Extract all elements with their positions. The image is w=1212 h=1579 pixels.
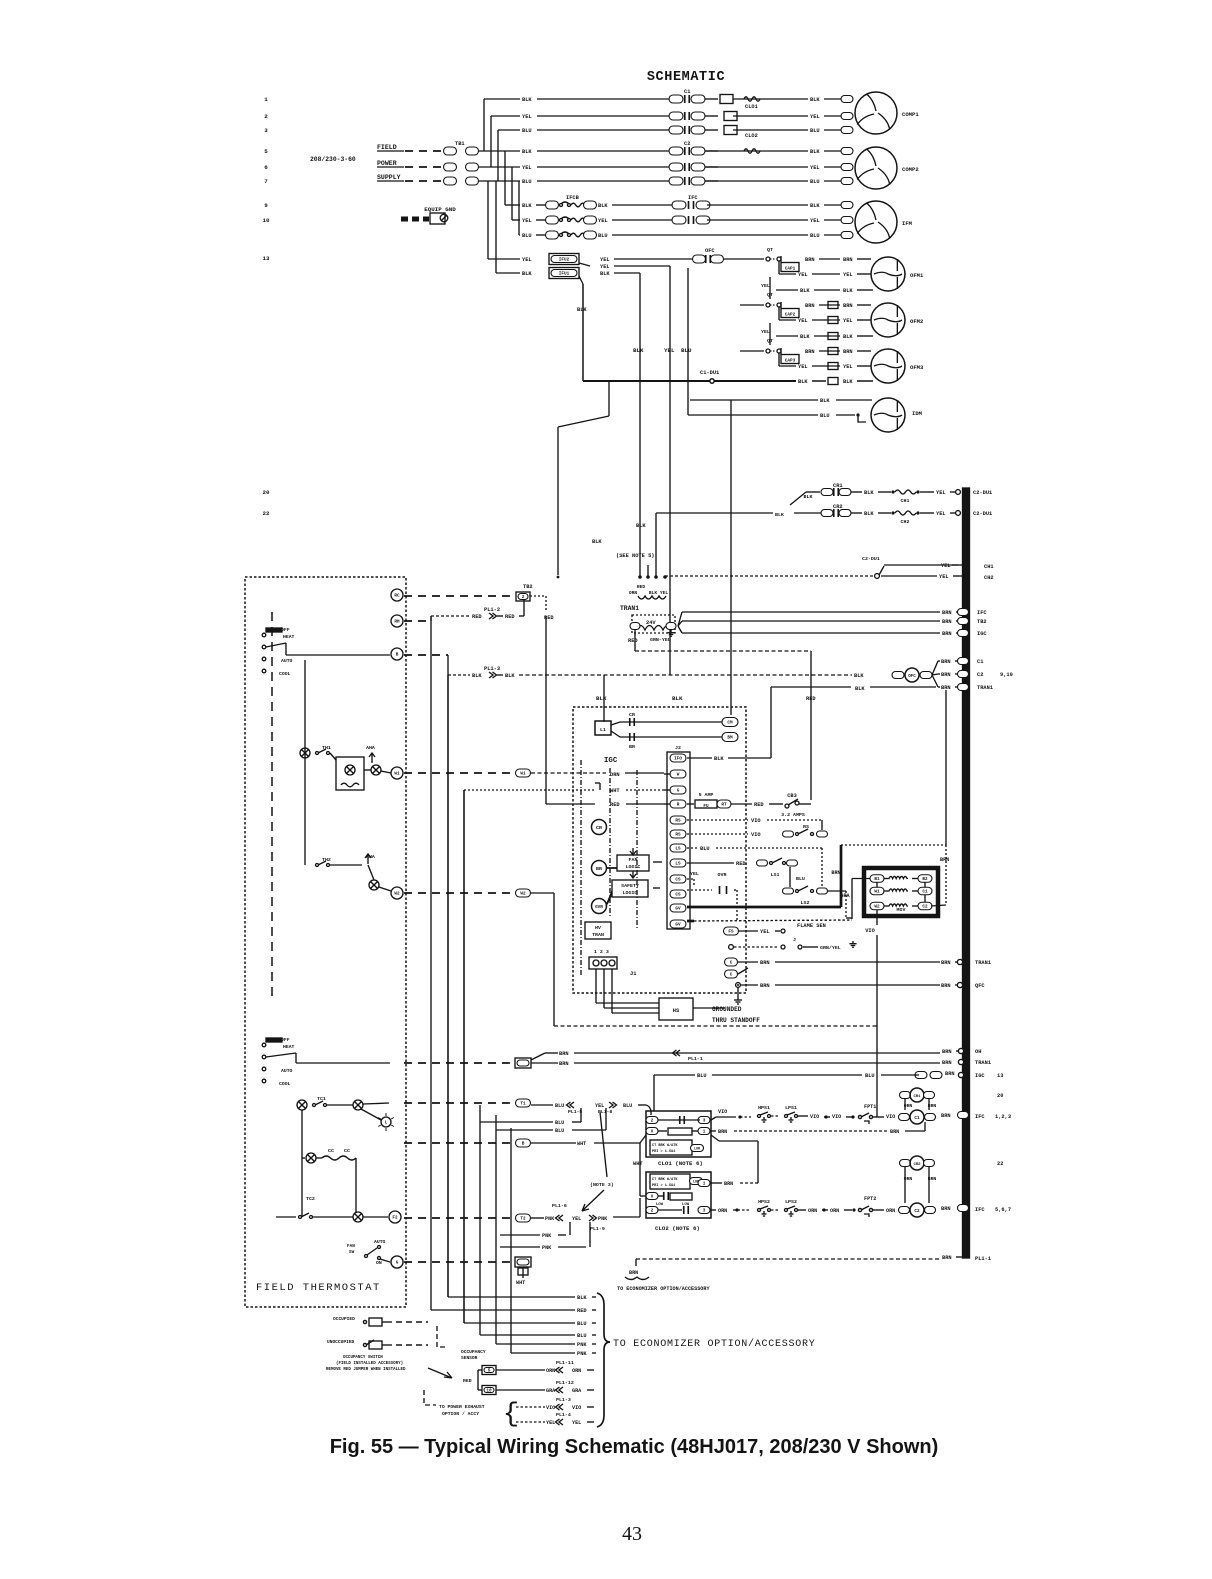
svg-text:BRN: BRN: [843, 257, 853, 263]
svg-text:FU: FU: [703, 804, 709, 809]
svg-text:PL1-3: PL1-3: [556, 1397, 571, 1403]
svg-text:RS: RS: [803, 824, 809, 830]
svg-text:YEL: YEL: [810, 218, 820, 224]
svg-text:ORN: ORN: [610, 772, 620, 778]
svg-text:PNK: PNK: [545, 1216, 555, 1222]
svg-text:SW: SW: [349, 1250, 355, 1255]
svg-text:C2-DU1: C2-DU1: [862, 556, 880, 562]
svg-text:B2: B2: [922, 877, 928, 882]
svg-text:LS2: LS2: [801, 900, 810, 906]
svg-text:RED: RED: [577, 1308, 587, 1314]
svg-text:WHT: WHT: [633, 1161, 643, 1167]
svg-text:REMOVE RED JUMPER WHEN INSTALL: REMOVE RED JUMPER WHEN INSTALLED: [326, 1368, 406, 1372]
svg-text:PL1-5: PL1-5: [568, 1109, 582, 1115]
svg-text:IFC: IFC: [688, 195, 698, 201]
svg-text:1 2 3: 1 2 3: [594, 949, 609, 955]
svg-text:YEL: YEL: [936, 490, 946, 496]
svg-text:BR: BR: [596, 866, 602, 872]
svg-text:YEL: YEL: [595, 1103, 604, 1109]
svg-text:BLU: BLU: [577, 1333, 587, 1339]
svg-text:CLO1: CLO1: [745, 104, 758, 110]
svg-text:YEL: YEL: [798, 364, 808, 370]
svg-text:BLK: BLK: [522, 271, 532, 277]
svg-text:BLK: BLK: [592, 539, 602, 545]
svg-text:W1: W1: [520, 772, 526, 777]
svg-text:BRN: BRN: [629, 1270, 638, 1276]
svg-text:HV: HV: [595, 925, 601, 931]
svg-text:BRN: BRN: [805, 303, 815, 309]
svg-text:SAFETY: SAFETY: [621, 883, 639, 889]
svg-text:PL1-1: PL1-1: [975, 1256, 991, 1262]
svg-text:BRN: BRN: [718, 1129, 727, 1135]
svg-text:BRN: BRN: [941, 1113, 951, 1119]
svg-text:PNK: PNK: [542, 1233, 552, 1239]
svg-text:X: X: [651, 1195, 654, 1200]
svg-text:BLK: BLK: [596, 695, 607, 702]
svg-text:BRN: BRN: [942, 1060, 952, 1066]
svg-text:IFU1: IFU1: [559, 272, 570, 277]
svg-text:TC2: TC2: [306, 1196, 315, 1202]
svg-text:OFM1: OFM1: [910, 272, 924, 279]
svg-text:YEL: YEL: [941, 563, 951, 569]
svg-text:GROUNDED: GROUNDED: [712, 1006, 742, 1013]
svg-text:HEAT: HEAT: [283, 1044, 295, 1050]
svg-text:CH1: CH1: [901, 498, 910, 504]
svg-text:LPS1: LPS1: [785, 1105, 797, 1111]
svg-text:BLK: BLK: [855, 686, 865, 692]
svg-text:10: 10: [486, 1389, 492, 1394]
svg-text:FS: FS: [728, 930, 734, 935]
svg-text:BLU: BLU: [555, 1128, 564, 1134]
svg-text:BRN: BRN: [942, 610, 952, 616]
svg-text:BLK: BLK: [672, 695, 683, 702]
svg-text:CR1: CR1: [913, 1095, 921, 1099]
svg-text:COOL: COOL: [279, 1081, 291, 1087]
svg-text:BLK: BLK: [864, 490, 874, 496]
svg-text:BLK: BLK: [577, 307, 587, 313]
svg-text:EQUIP GND: EQUIP GND: [424, 206, 456, 213]
svg-text:IFC: IFC: [975, 1114, 985, 1120]
svg-text:YEL: YEL: [810, 165, 820, 171]
svg-text:RED: RED: [505, 614, 515, 620]
svg-text:BLK: BLK: [714, 756, 724, 762]
svg-text:W: W: [677, 773, 680, 778]
svg-text:VIO: VIO: [751, 818, 761, 824]
svg-text:BRN: BRN: [890, 1129, 899, 1135]
svg-text:BR: BR: [629, 744, 635, 750]
svg-text:ORN: ORN: [629, 590, 637, 596]
svg-text:OFM3: OFM3: [910, 364, 924, 371]
svg-text:PL1-8: PL1-8: [598, 1109, 612, 1115]
svg-text:LOR: LOR: [694, 1148, 700, 1152]
svg-text:YEL: YEL: [546, 1420, 555, 1426]
svg-text:5 AMP: 5 AMP: [699, 792, 714, 798]
svg-text:6: 6: [264, 164, 268, 171]
svg-text:3: 3: [703, 1119, 706, 1124]
svg-text:13: 13: [262, 255, 270, 262]
svg-text:VIO: VIO: [546, 1405, 555, 1411]
svg-text:YEL: YEL: [522, 165, 532, 171]
svg-text:OCCUPANCY SWITCH: OCCUPANCY SWITCH: [343, 1356, 383, 1360]
svg-text:BRN: BRN: [941, 983, 951, 989]
svg-text:YEL: YEL: [939, 574, 949, 580]
svg-text:IGC: IGC: [604, 757, 618, 765]
svg-text:PL1-9: PL1-9: [590, 1226, 605, 1232]
svg-text:G: G: [677, 789, 680, 794]
svg-text:C: C: [730, 973, 733, 978]
svg-text:(SEE NOTE 5): (SEE NOTE 5): [616, 553, 654, 559]
svg-text:BRN: BRN: [843, 349, 853, 355]
svg-text:T1: T1: [520, 1102, 526, 1107]
svg-text:BRN: BRN: [760, 960, 770, 966]
svg-text:FPT2: FPT2: [864, 1196, 876, 1202]
svg-text:BRN: BRN: [942, 1255, 952, 1261]
svg-text:10: 10: [262, 217, 270, 224]
svg-text:YEL: YEL: [843, 272, 853, 278]
svg-text:TRAN1: TRAN1: [977, 685, 993, 691]
svg-text:BLK: BLK: [804, 494, 813, 500]
svg-text:PL1-3: PL1-3: [484, 666, 500, 672]
svg-text:YEL: YEL: [810, 114, 820, 120]
svg-text:BLK: BLK: [843, 334, 853, 340]
svg-text:MGV: MGV: [897, 907, 906, 913]
svg-text:T2: T2: [520, 1217, 526, 1222]
svg-text:BLK: BLK: [577, 1295, 587, 1301]
svg-text:LS: LS: [675, 862, 681, 867]
svg-text:CLO2 (NOTE 6): CLO2 (NOTE 6): [655, 1225, 700, 1232]
svg-text:FPT1: FPT1: [864, 1104, 876, 1110]
svg-text:BLK: BLK: [810, 203, 820, 209]
svg-text:RT: RT: [721, 803, 727, 808]
svg-text:CS: CS: [675, 893, 681, 898]
svg-text:COOL: COOL: [279, 671, 291, 677]
svg-text:BLK: BLK: [522, 97, 532, 103]
svg-text:OFF: OFF: [281, 1037, 290, 1043]
svg-text:PNK: PNK: [598, 1216, 608, 1222]
svg-text:CAP1: CAP1: [785, 267, 796, 272]
svg-text:J1: J1: [630, 971, 636, 977]
svg-text:PL1-1: PL1-1: [688, 1056, 703, 1062]
svg-text:PNK: PNK: [577, 1342, 587, 1348]
svg-text:HPS2: HPS2: [758, 1199, 770, 1205]
svg-text:FIELD THERMOSTAT: FIELD THERMOSTAT: [256, 1282, 381, 1294]
svg-text:RED: RED: [463, 1378, 472, 1384]
svg-text:BLK: BLK: [864, 511, 874, 517]
svg-text:VIO: VIO: [810, 1114, 819, 1120]
svg-text:C1: C1: [977, 659, 983, 665]
svg-text:CH2: CH2: [984, 575, 994, 581]
svg-text:YEL: YEL: [664, 347, 675, 354]
svg-text:VIO: VIO: [718, 1109, 727, 1115]
svg-text:SENSOR: SENSOR: [461, 1355, 478, 1361]
svg-text:9: 9: [264, 202, 268, 209]
svg-text:2: 2: [651, 1209, 654, 1214]
svg-text:7: 7: [264, 178, 268, 185]
svg-text:BRN: BRN: [942, 619, 952, 625]
svg-text:PL1-2: PL1-2: [484, 607, 500, 613]
svg-text:BRN: BRN: [942, 1049, 952, 1055]
svg-text:YEL: YEL: [572, 1216, 581, 1222]
svg-text:ORN: ORN: [546, 1368, 555, 1374]
svg-text:IFCB: IFCB: [566, 195, 580, 201]
svg-text:2: 2: [522, 595, 525, 600]
svg-text:FIELD: FIELD: [377, 144, 397, 151]
svg-text:GV: GV: [675, 907, 681, 912]
svg-text:IDM: IDM: [912, 410, 923, 417]
svg-text:L1: L1: [600, 727, 606, 733]
svg-text:GVR: GVR: [595, 905, 603, 910]
svg-text:BRN: BRN: [940, 857, 949, 863]
svg-text:(NOTE 3): (NOTE 3): [590, 1182, 614, 1188]
svg-text:BRN: BRN: [941, 960, 951, 966]
svg-text:BLK: BLK: [854, 673, 864, 679]
svg-text:C2-DU1: C2-DU1: [973, 490, 992, 496]
svg-text:QT: QT: [767, 247, 773, 253]
svg-text:BLU: BLU: [810, 128, 820, 134]
svg-text:OFM2: OFM2: [910, 318, 923, 325]
svg-text:2: 2: [264, 113, 268, 120]
svg-text:CAP2: CAP2: [785, 313, 796, 318]
svg-text:TB2: TB2: [977, 619, 987, 625]
svg-text:QT: QT: [767, 292, 773, 298]
svg-text:HEAT: HEAT: [283, 634, 295, 640]
svg-text:BRN: BRN: [805, 349, 815, 355]
svg-text:L: L: [385, 1121, 388, 1126]
svg-text:HPS1: HPS1: [758, 1105, 770, 1111]
svg-text:CC: CC: [344, 1148, 350, 1154]
svg-text:BLU: BLU: [522, 128, 532, 134]
svg-text:BLK: BLK: [649, 590, 657, 596]
svg-text:F2: F2: [392, 1216, 398, 1221]
svg-text:TRAN1: TRAN1: [975, 1060, 991, 1066]
svg-text:1: 1: [264, 96, 268, 103]
svg-text:QT: QT: [767, 338, 773, 344]
svg-text:RED: RED: [754, 802, 764, 808]
svg-text:BLU: BLU: [865, 1073, 875, 1079]
svg-text:BLK: BLK: [472, 673, 482, 679]
svg-text:YEL: YEL: [660, 590, 668, 596]
svg-text:CT BRK W/ATK: CT BRK W/ATK: [652, 1177, 678, 1182]
svg-text:COMP1: COMP1: [902, 111, 919, 118]
svg-text:BM: BM: [727, 736, 733, 741]
svg-text:22: 22: [997, 1161, 1003, 1167]
svg-text:ORN: ORN: [886, 1208, 895, 1214]
svg-text:OFC: OFC: [908, 675, 916, 679]
svg-text:WHT: WHT: [577, 1141, 586, 1147]
svg-text:PNK: PNK: [577, 1351, 587, 1357]
svg-text:BRN: BRN: [760, 983, 770, 989]
svg-text:B1: B1: [874, 877, 880, 882]
svg-text:ON: ON: [376, 1260, 382, 1266]
svg-text:BLU: BLU: [820, 413, 830, 419]
svg-text:YEL: YEL: [690, 871, 699, 877]
svg-text:CLO1 (NOTE 6): CLO1 (NOTE 6): [658, 1160, 703, 1167]
svg-text:PL1-6: PL1-6: [552, 1203, 567, 1209]
svg-text:YEL: YEL: [761, 329, 770, 335]
svg-text:COMP2: COMP2: [902, 166, 919, 173]
svg-text:W2: W2: [520, 892, 526, 897]
svg-text:YEL: YEL: [760, 929, 770, 935]
svg-text:RH: RH: [394, 620, 400, 625]
svg-text:AUTO: AUTO: [281, 1068, 293, 1074]
svg-text:TB2: TB2: [523, 584, 533, 590]
svg-text:W1: W1: [874, 890, 880, 895]
svg-text:BLU: BLU: [681, 347, 692, 354]
svg-text:BLK: BLK: [598, 203, 608, 209]
svg-text:UNOCCUPIED: UNOCCUPIED: [327, 1339, 355, 1345]
svg-text:C2: C2: [684, 141, 690, 147]
svg-text:BLU: BLU: [555, 1103, 564, 1109]
svg-text:1: 1: [703, 1130, 706, 1135]
svg-text:THRU STANDOFF: THRU STANDOFF: [712, 1017, 760, 1024]
svg-text:WHT: WHT: [610, 788, 620, 794]
svg-text:BRN: BRN: [805, 257, 815, 263]
svg-text:BLU: BLU: [700, 846, 710, 852]
svg-text:ORN: ORN: [572, 1368, 581, 1374]
svg-text:BRN: BRN: [945, 1071, 955, 1077]
svg-text:YEL: YEL: [761, 283, 770, 289]
svg-text:FAN: FAN: [629, 857, 638, 863]
svg-text:GV: GV: [675, 923, 681, 928]
svg-text:LPS2: LPS2: [785, 1199, 797, 1205]
svg-text:YEL: YEL: [600, 264, 610, 270]
svg-text:PRI > 1.5&1: PRI > 1.5&1: [652, 1149, 675, 1154]
svg-text:BLK: BLK: [810, 149, 820, 155]
svg-text:BRN: BRN: [941, 1206, 951, 1212]
svg-text:IFU2: IFU2: [559, 258, 570, 263]
svg-text:5,6,7: 5,6,7: [995, 1207, 1011, 1213]
svg-text:(FIELD INSTALLED ACCESSORY): (FIELD INSTALLED ACCESSORY): [336, 1361, 403, 1366]
svg-text:RED: RED: [637, 584, 645, 590]
svg-text:IFO: IFO: [674, 757, 682, 762]
svg-text:WHT: WHT: [516, 1280, 525, 1286]
svg-text:CH1: CH1: [984, 564, 994, 570]
svg-text:BLK: BLK: [505, 673, 515, 679]
svg-text:BRN: BRN: [941, 659, 951, 665]
svg-text:22: 22: [262, 510, 270, 517]
svg-text:CC: CC: [328, 1148, 334, 1154]
svg-text:RED: RED: [610, 802, 620, 808]
svg-text:Fig. 55 — Typical Wiring Schem: Fig. 55 — Typical Wiring Schematic (48HJ…: [330, 1436, 939, 1458]
svg-text:YEL: YEL: [843, 364, 853, 370]
svg-text:C: C: [730, 961, 733, 966]
svg-text:OH: OH: [975, 1049, 981, 1055]
svg-text:BLU: BLU: [555, 1120, 564, 1126]
svg-text:BLU: BLU: [810, 179, 820, 185]
svg-text:BRN: BRN: [831, 870, 840, 876]
svg-text:W2: W2: [874, 905, 880, 910]
svg-text:C2: C2: [914, 1209, 920, 1214]
svg-text:CB3: CB3: [787, 793, 797, 799]
svg-text:1,2,3: 1,2,3: [995, 1114, 1011, 1120]
svg-text:BLK: BLK: [600, 271, 610, 277]
svg-text:TB1: TB1: [455, 141, 465, 147]
svg-text:AUTO: AUTO: [374, 1239, 386, 1245]
svg-text:24V: 24V: [646, 620, 656, 626]
svg-text:C1-DU1: C1-DU1: [700, 370, 719, 376]
svg-text:3: 3: [264, 127, 268, 134]
svg-text:BRN: BRN: [559, 1051, 569, 1057]
svg-text:LOGIC: LOGIC: [626, 864, 641, 870]
svg-text:PL1-12: PL1-12: [556, 1380, 574, 1386]
svg-text:TRAN1: TRAN1: [620, 605, 639, 612]
svg-text:AHA: AHA: [366, 745, 375, 751]
svg-text:AUTO: AUTO: [281, 658, 293, 664]
svg-text:GRA: GRA: [572, 1388, 582, 1394]
svg-text:BRN: BRN: [724, 1181, 733, 1187]
svg-text:BLU: BLU: [697, 1073, 707, 1079]
svg-text:20: 20: [997, 1093, 1003, 1099]
svg-text:B: B: [396, 653, 399, 658]
svg-text:BRN: BRN: [559, 1061, 569, 1067]
svg-text:5: 5: [488, 1369, 491, 1374]
svg-text:3.2 AMPS: 3.2 AMPS: [781, 812, 805, 818]
svg-text:SCHEMATIC: SCHEMATIC: [647, 70, 725, 85]
svg-text:BLK: BLK: [810, 97, 820, 103]
svg-text:LS: LS: [675, 847, 681, 852]
svg-text:BLU: BLU: [796, 876, 805, 882]
svg-text:BLK: BLK: [820, 398, 830, 404]
svg-text:GRA: GRA: [546, 1388, 556, 1394]
svg-text:B: B: [522, 1142, 525, 1147]
svg-text:RED: RED: [806, 696, 816, 702]
svg-text:208/230-3-60: 208/230-3-60: [310, 156, 356, 163]
svg-text:HS: HS: [673, 1008, 680, 1014]
svg-text:43: 43: [622, 1523, 642, 1545]
svg-text:C2-DU1: C2-DU1: [973, 511, 992, 517]
svg-text:CR2: CR2: [913, 1163, 921, 1167]
svg-text:BLK: BLK: [798, 379, 808, 385]
svg-text:CH2: CH2: [901, 519, 910, 525]
svg-text:J: J: [793, 937, 796, 943]
svg-text:IGC: IGC: [977, 631, 987, 637]
svg-text:J2: J2: [675, 745, 681, 751]
svg-text:CT BRK W/ATK: CT BRK W/ATK: [652, 1143, 678, 1148]
svg-text:PNK: PNK: [542, 1245, 552, 1251]
svg-text:ORN: ORN: [718, 1208, 727, 1214]
svg-text:2: 2: [651, 1119, 654, 1124]
svg-text:X: X: [651, 1130, 654, 1135]
svg-text:TRAN: TRAN: [592, 932, 604, 938]
svg-text:TRAN1: TRAN1: [975, 960, 991, 966]
svg-text:ORN: ORN: [808, 1208, 817, 1214]
svg-text:FLAME SEN: FLAME SEN: [797, 923, 826, 929]
svg-text:BLU: BLU: [598, 233, 608, 239]
svg-text:RS: RS: [675, 819, 681, 824]
svg-text:YEL: YEL: [936, 511, 946, 517]
svg-text:BLU: BLU: [522, 233, 532, 239]
svg-text:20: 20: [262, 489, 270, 496]
svg-text:OFF: OFF: [281, 627, 290, 633]
svg-text:RED: RED: [736, 861, 746, 867]
svg-text:YEL: YEL: [598, 218, 608, 224]
svg-text:VIO: VIO: [751, 832, 761, 838]
svg-text:W2: W2: [394, 892, 400, 897]
svg-text:CR: CR: [596, 825, 602, 831]
svg-text:OCCUPANCY: OCCUPANCY: [461, 1349, 486, 1355]
svg-text:C1: C1: [684, 89, 690, 95]
svg-text:CLO2: CLO2: [745, 133, 758, 139]
svg-text:{: {: [503, 1400, 519, 1430]
svg-text:BLK: BLK: [636, 523, 646, 529]
svg-text:BLU: BLU: [623, 1103, 632, 1109]
svg-text:BRN: BRN: [843, 303, 853, 309]
svg-text:RS: RS: [675, 833, 681, 838]
svg-text:PL1-11: PL1-11: [556, 1360, 574, 1366]
svg-text:R: R: [677, 803, 680, 808]
svg-text:GRN-YEL: GRN-YEL: [650, 637, 671, 643]
svg-text:RED: RED: [472, 614, 482, 620]
